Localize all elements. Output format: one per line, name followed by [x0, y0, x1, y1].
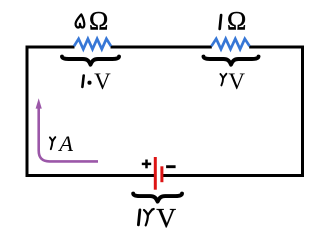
wire: right loop (R2 right terminal to battery-): [163, 47, 303, 176]
resistor R1 (5 ohm, blue zigzag): [74, 39, 111, 49]
brace under R2: [204, 57, 259, 65]
label V2: Persian digit 2 of 2V: [220, 74, 226, 86]
label R1 value: Persian digit 5: [76, 14, 85, 27]
svg-text:A: A: [57, 131, 73, 156]
battery plus terminal sign: [142, 160, 151, 169]
battery negative plate (short red line): [160, 166, 163, 182]
brace under R1: [62, 57, 119, 65]
label R2 value: Persian digit 1: [220, 15, 221, 29]
svg-text:Ω: Ω: [227, 6, 246, 35]
wire: top middle segment (R1 right to R2 left): [111, 46, 212, 49]
svg-text:Ω: Ω: [89, 6, 108, 35]
current arrow head: [36, 98, 42, 108]
svg-text:V: V: [94, 69, 111, 94]
label battery: Persian digit 2 of 12V: [144, 209, 154, 225]
label V1: Persian digit 0 (dot) of 10V: [87, 81, 91, 85]
label V1: Persian digit 1 of 10V: [82, 76, 83, 87]
battery positive plate (tall red line): [154, 157, 157, 190]
current arrow (2A, purple): [39, 108, 98, 162]
label battery: Persian digit 1 of 12V: [138, 210, 140, 225]
wire: left loop (battery+ to R1 left terminal): [27, 47, 156, 176]
battery minus terminal sign: [166, 165, 176, 168]
svg-text:V: V: [228, 69, 245, 94]
svg-text:V: V: [156, 202, 176, 233]
brace under battery: [133, 194, 182, 202]
label current: Persian digit 2 of 2A: [50, 137, 55, 149]
resistor R2 (1 ohm, blue zigzag): [211, 39, 249, 49]
